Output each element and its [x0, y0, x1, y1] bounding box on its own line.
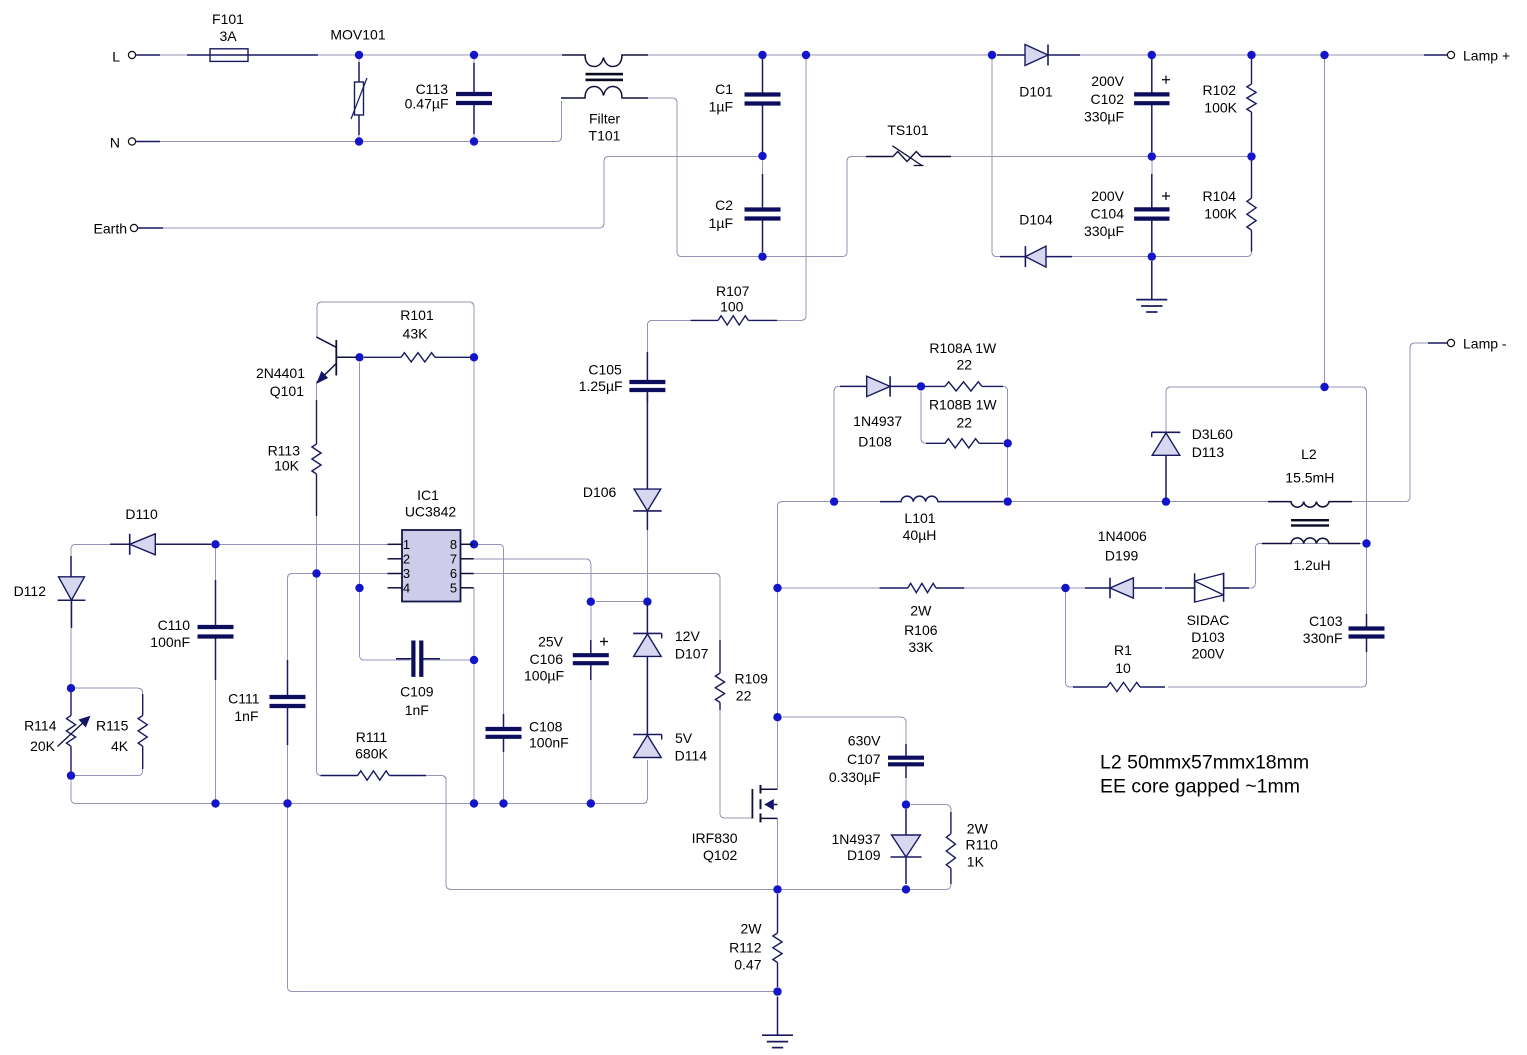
svg-text:680K: 680K	[355, 746, 388, 762]
wire C107 bottom to D109 node	[905, 769, 907, 801]
svg-text:Lamp +: Lamp +	[1463, 48, 1510, 64]
svg-text:C111: C111	[228, 691, 260, 707]
svg-text:100K: 100K	[1204, 206, 1237, 222]
terminal lead N	[136, 141, 161, 143]
wire T101 bottom-right to C2 bottom and TS101 left	[648, 98, 866, 257]
svg-text:1.25µF: 1.25µF	[579, 378, 623, 394]
svg-text:6: 6	[450, 566, 457, 581]
ground (C104 negative)	[1136, 261, 1167, 312]
svg-text:4K: 4K	[111, 738, 129, 754]
wire Q101 emitter to R113	[316, 382, 318, 444]
svg-text:C108: C108	[529, 719, 563, 735]
diode D199 (1N4006)	[1085, 578, 1162, 599]
plus marker C106	[600, 638, 608, 646]
junction R108B right	[1004, 439, 1012, 447]
junction D110 line/C110 top	[211, 540, 219, 548]
svg-text:D101: D101	[1019, 84, 1053, 100]
svg-text:D3L60: D3L60	[1192, 426, 1233, 442]
svg-text:R114: R114	[24, 718, 57, 734]
wire D109 node to R110 top	[911, 805, 951, 831]
svg-text:0.330µF: 0.330µF	[829, 769, 881, 785]
svg-text:2N4401: 2N4401	[256, 365, 305, 381]
svg-text:200V: 200V	[1192, 646, 1225, 662]
terminal N	[128, 138, 135, 145]
svg-text:Q101: Q101	[270, 383, 304, 399]
capacitor C107	[888, 744, 924, 778]
wire IC pin6 to R109	[474, 574, 720, 671]
wire source rail to R112	[777, 894, 779, 930]
wire drain to R106	[778, 587, 909, 589]
capacitor C1	[745, 59, 781, 152]
wire D104 anode to C104 bottom and R104 bottom	[1046, 231, 1252, 257]
svg-text:5V: 5V	[675, 730, 693, 746]
wire IC pin4 to C109 left	[360, 592, 411, 660]
svg-text:22: 22	[957, 414, 973, 430]
wire C103 bottom to R1 right	[1168, 639, 1367, 687]
wire C109 right to pin5 column	[423, 659, 474, 661]
junction D112/R114/R115 top	[67, 684, 75, 692]
resistor R106	[880, 583, 965, 592]
junction D109/source rail	[902, 885, 910, 893]
wire Lamp+ rail drop to snubber line	[1324, 59, 1326, 387]
junction C2 bottom	[758, 252, 766, 260]
wire L101 right to D113/L2	[938, 501, 1268, 503]
wire D106 to D107 node	[646, 514, 648, 600]
svg-text:100nF: 100nF	[529, 735, 569, 751]
wire C2 branch	[762, 161, 764, 253]
svg-text:330µF: 330µF	[1084, 109, 1124, 125]
svg-text:1µF: 1µF	[709, 99, 733, 115]
svg-text:IC1: IC1	[417, 487, 439, 503]
wire L rail left segment	[158, 54, 586, 56]
svg-text:D113: D113	[1192, 444, 1225, 460]
svg-text:C2: C2	[715, 197, 733, 213]
svg-text:Q102: Q102	[703, 847, 737, 863]
wire IC pin5 ground column	[473, 588, 475, 804]
capacitor C110	[198, 580, 234, 680]
wire C1 branch	[762, 59, 764, 152]
svg-text:22: 22	[957, 357, 973, 373]
diode D101	[997, 45, 1080, 66]
capacitor C113	[456, 63, 492, 134]
svg-text:C106: C106	[530, 651, 564, 667]
svg-text:L2 50mmx57mmx18mm: L2 50mmx57mmx18mm	[1100, 752, 1309, 774]
resistor R1	[1073, 682, 1165, 691]
zener diode D107 (12V)	[633, 633, 662, 656]
svg-text:D114: D114	[675, 748, 708, 764]
svg-text:R110: R110	[966, 837, 999, 853]
svg-text:C103: C103	[1309, 613, 1343, 629]
junction R112/CS rail	[773, 987, 781, 995]
IC1 pin numbers	[403, 537, 457, 595]
wire SIDAC right up to L2 bottom winding	[1224, 544, 1362, 589]
svg-text:R109: R109	[735, 671, 769, 687]
junction IC pin8/R101 column	[470, 540, 478, 548]
junction C108/lower rail	[499, 799, 507, 807]
wire IC pin8 to C108	[474, 544, 504, 726]
diode D110	[110, 534, 211, 555]
resistor R115	[138, 694, 147, 769]
wire MOSFET drain riser	[777, 502, 782, 790]
wire R112 to CS rail	[777, 963, 779, 988]
terminal lead L	[136, 54, 161, 56]
svg-text:L: L	[112, 49, 120, 65]
wire D112 to R114 top node	[70, 549, 72, 684]
resistor R108B	[926, 439, 1003, 448]
svg-text:C102: C102	[1091, 91, 1125, 107]
junction R106/D199/R1	[1061, 584, 1069, 592]
svg-text:200V: 200V	[1091, 73, 1124, 89]
svg-text:C107: C107	[847, 751, 881, 767]
wire C102 branch	[1151, 59, 1153, 152]
ground (main)	[762, 997, 793, 1048]
svg-text:3A: 3A	[219, 28, 237, 44]
capacitor C106	[573, 640, 609, 680]
wire C111 bottom to CS rail	[288, 709, 778, 992]
wire R108A right down to drain node	[982, 386, 1008, 496]
wire D109 column to source rail	[905, 810, 907, 885]
inductor L2 bottom winding	[1262, 538, 1360, 544]
svg-text:R108B 1W: R108B 1W	[929, 397, 997, 413]
svg-text:630V: 630V	[848, 733, 881, 749]
svg-text:1K: 1K	[967, 854, 985, 870]
svg-text:100: 100	[720, 299, 744, 315]
svg-text:1N4937: 1N4937	[831, 831, 880, 847]
svg-text:15.5mH: 15.5mH	[1285, 470, 1334, 486]
capacitor C105	[629, 352, 665, 402]
svg-text:2W: 2W	[967, 821, 989, 837]
svg-text:R101: R101	[400, 307, 434, 323]
svg-text:D104: D104	[1019, 212, 1053, 228]
zener diode D113 (D3L60)	[1152, 432, 1181, 455]
lead D113	[1165, 456, 1167, 498]
svg-text:Earth: Earth	[94, 221, 127, 237]
svg-text:2W: 2W	[741, 921, 763, 937]
wire R111 right to source rail and R110	[389, 776, 951, 890]
junction C104/D104/ground	[1148, 252, 1156, 260]
svg-text:1nF: 1nF	[405, 702, 429, 718]
wire C108 bottom to lower rail	[503, 739, 505, 804]
svg-text:L101: L101	[904, 510, 935, 526]
wire R114 bottom to gnd-side rail	[71, 780, 76, 804]
svg-text:1: 1	[403, 537, 410, 552]
terminal lead Lamp-	[1428, 342, 1447, 344]
svg-text:R102: R102	[1203, 82, 1237, 98]
svg-text:1.2uH: 1.2uH	[1293, 557, 1330, 573]
wire D108 anode down to drain node	[834, 386, 867, 496]
svg-text:N: N	[110, 135, 120, 151]
wire IC pin7 to C106 top	[474, 559, 591, 602]
wire R107 left to C105	[647, 320, 690, 380]
wire L rail right segment	[621, 54, 1424, 56]
svg-text:D112: D112	[14, 583, 47, 599]
transistor Q102 (IRF830 MOSFET)	[752, 785, 777, 823]
terminal Lamp+	[1447, 51, 1454, 58]
filter transformer T101	[561, 55, 648, 98]
svg-text:25V: 25V	[538, 634, 564, 650]
svg-text:4: 4	[403, 580, 410, 595]
junction L/Lamp+ drop	[1320, 51, 1328, 59]
svg-text:D108: D108	[858, 434, 892, 450]
junction L/C102	[1148, 51, 1156, 59]
svg-text:R113: R113	[268, 443, 301, 459]
resistor R104	[1247, 161, 1256, 252]
wire C106 top to D107 top	[596, 601, 648, 603]
wire R109 to MOSFET gate	[720, 705, 752, 818]
capacitor C111	[270, 660, 306, 745]
wire R104 top lead	[1251, 161, 1253, 199]
svg-text:D106: D106	[583, 484, 617, 500]
thermal switch TS101	[866, 146, 951, 166]
lead D107 cathode	[646, 602, 648, 633]
wire R114/R115 top link	[71, 688, 143, 716]
svg-text:33K: 33K	[908, 639, 934, 655]
inductor L101	[880, 496, 1003, 501]
zener diode D114 (5V)	[633, 735, 662, 758]
wire Lamp- down to L2 top-right	[1352, 343, 1428, 502]
svg-text:MOV101: MOV101	[330, 27, 385, 43]
resistor R113	[312, 400, 321, 516]
wire C104 branch	[1151, 161, 1153, 257]
diode D108	[840, 376, 917, 396]
junction Q101 base/R101	[355, 353, 363, 361]
wire MOV101 branch	[358, 59, 360, 138]
svg-text:Lamp -: Lamp -	[1463, 336, 1507, 352]
junction C111/lower rail	[283, 799, 291, 807]
junction L/R102	[1247, 51, 1255, 59]
svg-text:330µF: 330µF	[1084, 223, 1124, 239]
junction pin5 column/lower rail	[470, 799, 478, 807]
capacitor C104	[1134, 174, 1169, 252]
wire lower rail (IC ground rail) to D114	[76, 760, 647, 804]
wire R102 bottom lead	[1251, 112, 1253, 152]
resistor R102	[1247, 59, 1256, 152]
junction R113/IC pin3	[312, 569, 320, 577]
svg-text:1N4937: 1N4937	[853, 413, 902, 429]
svg-text:C1: C1	[715, 81, 733, 97]
junction R102/R104 midpoint	[1247, 152, 1255, 160]
junction C107/D109/R110	[902, 800, 910, 808]
junction R101 right	[470, 353, 478, 361]
svg-text:R115: R115	[96, 718, 129, 734]
junction C109 right/pin5	[470, 656, 478, 664]
svg-text:UC3842: UC3842	[405, 504, 457, 520]
wire R108B left link	[921, 391, 946, 443]
wire IC pin1 line to D110	[71, 544, 388, 549]
diode D106	[633, 393, 662, 530]
junction C106/lower rail	[587, 799, 595, 807]
junction L/C113	[470, 51, 478, 59]
svg-text:D199: D199	[1105, 548, 1139, 564]
capacitor C103	[1349, 614, 1385, 652]
svg-text:R106: R106	[904, 622, 938, 638]
wire MOSFET source down to rail	[776, 818, 778, 884]
junction MOSFET source/rail	[773, 885, 781, 893]
svg-text:C110: C110	[158, 617, 191, 633]
fuse F101	[187, 49, 318, 62]
wire R102 top lead	[1251, 59, 1253, 84]
svg-text:R104: R104	[1203, 188, 1237, 204]
diode D109	[891, 809, 922, 884]
junction L/MOV101	[355, 51, 363, 59]
resistor R111	[321, 771, 427, 780]
resistor R112	[773, 894, 782, 987]
svg-text:Filter: Filter	[589, 111, 620, 127]
svg-text:EE core gapped ~1mm: EE core gapped ~1mm	[1100, 776, 1300, 798]
diode D104	[1000, 246, 1072, 267]
svg-text:10: 10	[1115, 660, 1131, 676]
resistor R110	[946, 812, 955, 884]
terminal lead Lamp+	[1424, 54, 1447, 56]
resistor R109	[715, 640, 724, 710]
svg-text:200V: 200V	[1091, 188, 1124, 204]
svg-text:0.47µF: 0.47µF	[405, 96, 449, 112]
wire C110 column	[215, 548, 217, 803]
svg-text:R108A 1W: R108A 1W	[929, 340, 997, 356]
svg-text:5: 5	[450, 580, 457, 595]
wire R1 left up to D199 node	[1066, 592, 1108, 687]
junction C110/lower rail	[211, 799, 219, 807]
junction C106 top	[587, 598, 595, 606]
svg-text:20K: 20K	[30, 738, 56, 754]
svg-text:8: 8	[450, 537, 457, 552]
transistor Q101 (2N4401)	[316, 337, 357, 383]
svg-text:43K: 43K	[403, 326, 429, 342]
svg-text:D110: D110	[125, 506, 158, 522]
svg-text:100K: 100K	[1204, 100, 1237, 116]
wire drain node to L101 left	[782, 501, 901, 503]
junction IC pin4 column	[355, 584, 363, 592]
svg-text:40µH: 40µH	[903, 527, 937, 543]
wire D101 anode node down to D104 cathode	[992, 55, 1022, 257]
svg-text:C104: C104	[1091, 206, 1125, 222]
wire R106 to D199	[936, 587, 1090, 589]
sidac D103	[1165, 573, 1249, 602]
wire R115 bottom link	[71, 746, 143, 775]
plus marker C104	[1162, 192, 1170, 200]
svg-text:L2: L2	[1301, 446, 1317, 462]
svg-text:7: 7	[450, 551, 457, 566]
junction N/C113	[470, 137, 478, 145]
svg-text:D109: D109	[847, 847, 881, 863]
svg-text:C109: C109	[400, 684, 434, 700]
capacitor C109	[396, 641, 440, 677]
resistor R107	[691, 316, 777, 325]
junction earth/C1/C2 midpoint	[758, 152, 766, 160]
svg-text:C105: C105	[588, 362, 622, 378]
svg-text:1µF: 1µF	[709, 215, 733, 231]
wire L rail down to R107	[750, 55, 806, 320]
terminal L	[128, 51, 135, 58]
svg-text:SIDAC: SIDAC	[1187, 612, 1230, 628]
wire R114 leads node to node	[70, 692, 72, 771]
resistor R101	[364, 353, 471, 362]
svg-text:R112: R112	[729, 940, 762, 956]
junction L/C1	[758, 51, 766, 59]
wire Q101 collector loop to R101 right / IC pin8	[317, 302, 474, 544]
junction R108 pair/drain node	[1004, 497, 1012, 505]
svg-text:100µF: 100µF	[524, 668, 564, 684]
svg-text:22: 22	[736, 688, 752, 704]
resistor R114 (potentiometer)	[66, 692, 75, 772]
svg-text:R111: R111	[356, 729, 388, 745]
core of L2	[1291, 519, 1329, 527]
wire D113 cathode node	[1165, 390, 1167, 500]
svg-text:10K: 10K	[274, 458, 300, 474]
wire drain node to C107	[783, 717, 907, 753]
capacitor C102	[1134, 59, 1169, 152]
junction D106/D107	[643, 598, 651, 606]
terminal Lamp-	[1447, 339, 1454, 346]
wire R108B right link	[979, 442, 1008, 444]
junction L2 bottom/C103 column	[1362, 539, 1370, 547]
svg-text:1N4006: 1N4006	[1098, 528, 1147, 544]
svg-text:2W: 2W	[910, 603, 932, 619]
diode D112	[58, 556, 86, 628]
junction D108/R108A/R108B	[917, 382, 925, 390]
junction L/D101 branch	[988, 51, 996, 59]
wire TS101 right to C102/C104 and R102/R104 midpoints	[950, 156, 1252, 158]
lead D107-D114	[646, 656, 648, 734]
op-amp/controller IC1 UC3842	[402, 530, 461, 602]
arrow of potentiometer R114	[58, 716, 91, 747]
svg-text:D103: D103	[1191, 629, 1225, 645]
wire IC pin3 to C111	[288, 574, 388, 695]
svg-text:D107: D107	[675, 646, 709, 662]
wire Earth to C1/C2 midpoint	[138, 157, 760, 229]
svg-text:1nF: 1nF	[234, 708, 258, 724]
wire N rail to filter T101 bottom-left	[136, 101, 562, 142]
junction D113/L2 top	[1162, 497, 1170, 505]
wire R113 to R111 left	[317, 474, 359, 776]
junction L/R107 riser	[802, 51, 810, 59]
junction drain/C107	[773, 713, 781, 721]
wire C113 branch	[473, 59, 475, 138]
svg-text:TS101: TS101	[887, 122, 928, 138]
wire Q101 base node down to IC pin4	[359, 362, 361, 584]
capacitor C2	[745, 174, 781, 252]
capacitor C108	[486, 714, 522, 752]
svg-text:R1: R1	[1114, 642, 1132, 658]
svg-text:0.47: 0.47	[734, 957, 761, 973]
junction drain/R106	[773, 584, 781, 592]
IC1 pin stubs	[388, 544, 474, 588]
junction snubber line	[1320, 383, 1328, 391]
svg-text:R107: R107	[716, 283, 750, 299]
terminal lead Earth	[138, 227, 164, 229]
resistor R108A	[925, 382, 1003, 391]
svg-text:12V: 12V	[675, 628, 701, 644]
svg-text:IRF830: IRF830	[692, 830, 738, 846]
svg-text:330nF: 330nF	[1303, 630, 1343, 646]
svg-text:T101: T101	[589, 128, 621, 144]
wire snubber top line to C103	[1166, 387, 1367, 626]
wire C106 column	[590, 602, 592, 804]
plus marker C102	[1162, 76, 1170, 84]
svg-text:2: 2	[403, 551, 410, 566]
svg-text:3: 3	[403, 566, 410, 581]
junction N/MOV101	[355, 137, 363, 145]
junction C102/C104 midpoint	[1148, 152, 1156, 160]
junction R114/R115 bottom	[67, 771, 75, 779]
inductor L2 top winding	[1268, 502, 1352, 508]
varistor MOV101	[351, 62, 367, 135]
junction D108 anode/drain node	[830, 497, 838, 505]
terminal Earth	[130, 224, 137, 231]
svg-text:100nF: 100nF	[150, 634, 190, 650]
svg-text:F101: F101	[212, 11, 244, 27]
wire D199 to SIDAC	[1158, 587, 1196, 589]
